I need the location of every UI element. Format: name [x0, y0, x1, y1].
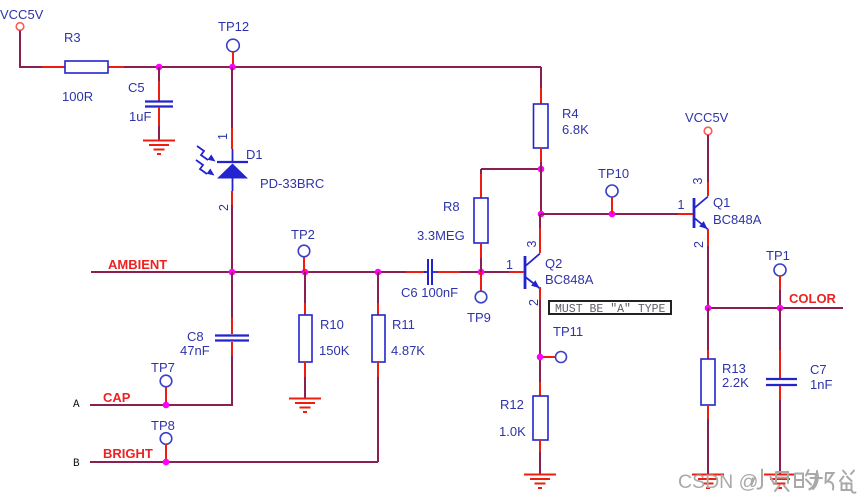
wire VCC5V down to Q1 collector — [707, 135, 709, 182]
wire D1 to AMBIENT rail — [231, 205, 233, 272]
node junction R13 — [705, 305, 712, 312]
wire junction down to D1 — [231, 67, 233, 128]
note box MUST BE A TYPE — [549, 301, 671, 316]
svg-text:3.3MEG: 3.3MEG — [417, 228, 465, 243]
svg-text:BC848A: BC848A — [545, 272, 594, 287]
node junction C5 on top rail — [156, 64, 163, 71]
svg-text:MUST BE "A" TYPE: MUST BE "A" TYPE — [555, 303, 666, 316]
svg-text:6.8K: 6.8K — [562, 122, 589, 137]
wire top rail corner down to R4 — [540, 67, 542, 88]
svg-text:R4: R4 — [562, 106, 579, 121]
svg-text:R11: R11 — [392, 317, 415, 332]
svg-text:150K: 150K — [319, 343, 350, 358]
svg-text:TP1: TP1 — [766, 248, 790, 263]
photodiode D1 — [196, 128, 324, 211]
wire R11 bottom to BRIGHT rail — [377, 377, 379, 462]
node junction TP7/CAP — [163, 402, 170, 409]
power VCC5V right — [685, 110, 729, 135]
svg-text:R13: R13 — [722, 361, 746, 376]
svg-text:C7: C7 — [810, 362, 827, 377]
wire R13 top — [707, 308, 709, 350]
svg-text:TP2: TP2 — [291, 227, 315, 242]
wire C8 bottom to CAP rail — [90, 356, 232, 405]
svg-text:VCC5V: VCC5V — [685, 110, 729, 125]
svg-text:Q1: Q1 — [713, 195, 730, 210]
node junction R4 bottom — [538, 166, 545, 173]
svg-text:C8: C8 — [187, 329, 204, 344]
svg-text:3: 3 — [691, 178, 705, 185]
svg-text:1: 1 — [506, 258, 513, 272]
node junction TP2/R10 — [302, 269, 309, 276]
node junction D1/C8 — [229, 269, 236, 276]
svg-text:D1: D1 — [246, 147, 263, 162]
svg-text:R10: R10 — [320, 317, 344, 332]
ground below C7 — [764, 475, 796, 489]
svg-text:2: 2 — [527, 299, 541, 306]
ground below C5 — [143, 141, 175, 155]
svg-text:Q2: Q2 — [545, 256, 562, 271]
node junction TP11 — [537, 354, 544, 361]
wire R3 right to corner above R4 — [124, 66, 541, 68]
svg-text:COLOR: COLOR — [789, 291, 837, 306]
wire C7 top — [779, 308, 781, 350]
svg-text:R12: R12 — [500, 397, 524, 412]
svg-text:1uF: 1uF — [129, 109, 151, 124]
svg-text:VCC5V: VCC5V — [0, 7, 44, 22]
resistor R10 — [299, 303, 350, 377]
testpoint TP10 — [598, 166, 629, 214]
svg-text:A: A — [73, 399, 80, 411]
wire Q1 emitter down to COLOR rail — [707, 246, 709, 308]
node junction TP12/D1 on top rail — [229, 64, 236, 71]
svg-text:CSDN @: CSDN @ — [678, 471, 758, 493]
wire AMBIENT rail — [91, 271, 406, 273]
wire VCC5V to R3 — [20, 31, 42, 68]
capacitor C7 — [766, 350, 832, 400]
ground below R10 — [289, 399, 321, 413]
svg-text:BC848A: BC848A — [713, 212, 762, 227]
testpoint TP9 — [467, 272, 491, 325]
svg-text:1: 1 — [216, 133, 230, 140]
resistor R13 — [701, 350, 749, 419]
svg-text:TP7: TP7 — [151, 360, 175, 375]
power VCC5V left — [0, 7, 44, 30]
wire R10 top — [304, 272, 306, 303]
svg-text:R3: R3 — [64, 30, 81, 45]
svg-text:B: B — [73, 458, 80, 470]
capacitor C5 — [128, 80, 173, 126]
capacitor C8 — [180, 318, 249, 358]
svg-text:3: 3 — [525, 241, 539, 248]
wire R10 to ground — [304, 377, 306, 398]
wire C7 to ground — [779, 400, 781, 474]
resistor R12 — [499, 382, 548, 452]
svg-text:2: 2 — [217, 204, 231, 211]
testpoint TP11 — [543, 324, 583, 363]
svg-text:TP11: TP11 — [553, 324, 583, 339]
testpoint TP12 — [218, 19, 249, 67]
svg-text:R8: R8 — [443, 199, 460, 214]
wire C6 to R8/TP9 junction — [460, 271, 510, 273]
wire C5 to ground — [158, 126, 160, 140]
svg-text:C6 100nF: C6 100nF — [401, 285, 458, 300]
node junction TP10 — [609, 211, 616, 218]
testpoint TP1 — [766, 248, 790, 308]
svg-text:2.2K: 2.2K — [722, 375, 749, 390]
svg-text:C5: C5 — [128, 80, 145, 95]
svg-text:TP10: TP10 — [598, 166, 629, 181]
svg-text:CAP: CAP — [103, 390, 131, 405]
svg-text:1.0K: 1.0K — [499, 424, 526, 439]
watermark CSDN — [678, 471, 758, 493]
svg-text:2: 2 — [692, 241, 706, 248]
transistor Q2 — [506, 228, 594, 306]
svg-text:BRIGHT: BRIGHT — [103, 446, 153, 461]
svg-text:TP9: TP9 — [467, 310, 491, 325]
node junction R11 — [375, 269, 382, 276]
wire R4 bottom down to collector rail — [540, 162, 542, 214]
testpoint TP7 — [151, 360, 175, 405]
ground below R12 — [524, 475, 556, 489]
node junction R8/TP9 — [478, 269, 485, 276]
wire BRIGHT rail — [90, 461, 378, 463]
svg-text:PD-33BRC: PD-33BRC — [260, 176, 324, 191]
node junction TP1/C7 — [777, 305, 784, 312]
transistor Q1 — [678, 178, 762, 249]
node junction TP8/BRIGHT — [163, 459, 170, 466]
wire R12 to ground — [539, 452, 541, 474]
capacitor C6 — [401, 259, 460, 300]
wire R4 bottom junction to R8 top — [481, 169, 541, 174]
svg-text:TP8: TP8 — [151, 418, 175, 433]
svg-text:AMBIENT: AMBIENT — [108, 257, 167, 272]
wire COLOR rail — [708, 307, 843, 309]
testpoint TP8 — [151, 418, 175, 462]
wire collector rail to Q1 base — [541, 213, 678, 215]
node junction Q2 collector — [538, 211, 545, 218]
wire R11 top — [377, 272, 379, 303]
wire C8 vertical from AMBIENT — [231, 272, 233, 318]
resistor R3 — [42, 30, 124, 104]
wire R8 bottom — [480, 258, 482, 272]
svg-text:47nF: 47nF — [180, 343, 210, 358]
resistor R8 — [417, 174, 488, 258]
svg-text:1nF: 1nF — [810, 377, 832, 392]
svg-text:TP12: TP12 — [218, 19, 249, 34]
ground below R13 — [692, 475, 724, 489]
watermark chinese glyphs — [752, 470, 856, 493]
svg-text:100R: 100R — [62, 89, 93, 104]
svg-text:1: 1 — [678, 198, 685, 212]
wire junction to C5 — [158, 67, 160, 81]
svg-text:4.87K: 4.87K — [391, 343, 425, 358]
light arrow 1 — [197, 146, 208, 160]
wire junction down to Q2 collector — [539, 214, 541, 228]
wire R13 to ground — [707, 419, 709, 474]
testpoint TP2 — [291, 227, 315, 272]
resistor R4 — [534, 88, 590, 162]
resistor R11 — [372, 303, 425, 377]
light arrow 2 — [196, 160, 207, 174]
wire Q2 emitter down — [539, 300, 541, 382]
